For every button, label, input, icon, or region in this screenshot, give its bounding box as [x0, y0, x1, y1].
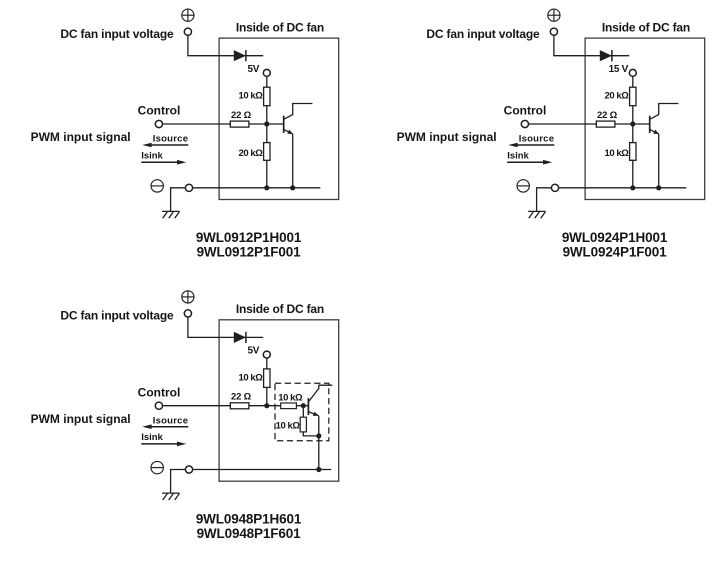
ground symbol (left)	[162, 211, 180, 218]
svg-text:5V: 5V	[248, 64, 260, 75]
node: internal supply terminal (bottom)	[263, 351, 270, 358]
resistor R1 10 kΩ (bottom)	[264, 369, 270, 388]
svg-text:PWM input signal: PWM input signal	[397, 130, 497, 144]
svg-text:5V: 5V	[248, 346, 260, 357]
wire: Control terminal through 22 ohm to junction (left)	[163, 123, 284, 125]
svg-text:10 kΩ: 10 kΩ	[239, 372, 264, 383]
arrow: Isource (points left) (right)	[508, 143, 554, 148]
wire: ground rail (bottom)	[193, 469, 332, 471]
wire: Control terminal through 22 ohm to junction (right)	[529, 123, 650, 125]
resistor 22 ohm (left)	[230, 121, 249, 127]
wire: emitter down to ground rail (bottom)	[318, 416, 320, 470]
svg-text:22 Ω: 22 Ω	[231, 392, 252, 403]
junction: base node dot (bottom)	[301, 403, 306, 408]
box: Inside of DC fan (left)	[219, 38, 339, 199]
junction: R2 bottom dot (right)	[630, 185, 635, 190]
resistor R2 20 kΩ (left)	[264, 143, 270, 161]
plus polarity symbol (bottom)	[182, 291, 194, 303]
wire: + terminal to diode (left)	[188, 35, 263, 55]
arrow: Isink (points right) (bottom)	[141, 442, 186, 447]
svg-text:Isource: Isource	[519, 134, 555, 145]
terminal: DC fan input (right)	[550, 28, 557, 35]
resistor R1 10 kΩ (left)	[264, 87, 270, 106]
terminal: ground side (left)	[185, 184, 192, 191]
svg-text:Inside of DC fan: Inside of DC fan	[236, 302, 324, 316]
transistor Q1 (NPN) base bar (bottom)	[307, 398, 309, 415]
resistor 22 ohm (right)	[596, 121, 615, 127]
terminal: DC fan input (left)	[184, 28, 191, 35]
wire: junction down to R2 (left)	[266, 124, 268, 143]
dashed enclosure box (bottom)	[275, 383, 329, 441]
wire: Control terminal through 22 ohm to junction (bottom)	[163, 405, 281, 407]
arrow: Isink (points right) (right)	[507, 160, 552, 165]
terminal: DC fan input (bottom)	[184, 310, 191, 317]
diode D1 (left)	[234, 50, 246, 61]
svg-text:Control: Control	[504, 104, 547, 118]
wire: base node down to R3 (bottom)	[302, 406, 304, 418]
wire: R3 bottom elbow to emitter (bottom)	[303, 432, 319, 436]
wire: R2 to ground rail (left)	[266, 160, 268, 188]
svg-text:Inside of DC fan: Inside of DC fan	[602, 20, 690, 34]
svg-text:Isink: Isink	[141, 151, 163, 162]
terminal: Control input (right)	[521, 120, 528, 127]
svg-text:22 Ω: 22 Ω	[597, 110, 618, 121]
wire: + terminal to diode (right)	[554, 35, 629, 55]
svg-text:9WL0912P1H001: 9WL0912P1H001	[196, 230, 302, 245]
svg-text:9WL0948P1F601: 9WL0948P1F601	[197, 526, 302, 541]
svg-text:Inside of DC fan: Inside of DC fan	[236, 20, 324, 34]
junction: control node dot (bottom)	[264, 403, 269, 408]
resistor R3 10 kohm vertical (bottom)	[300, 417, 306, 432]
svg-text:10 kΩ: 10 kΩ	[278, 393, 303, 404]
wire: R1 to control node (bottom)	[266, 387, 268, 405]
svg-text:9WL0948P1H601: 9WL0948P1H601	[196, 512, 302, 527]
terminal: Control input (left)	[155, 120, 162, 127]
svg-text:15 V: 15 V	[609, 64, 629, 75]
transistor Q1 (NPN) base bar (left)	[283, 116, 285, 133]
wire: R1 to control node (left)	[266, 106, 268, 124]
transistor Q1 emitter with arrow (bottom)	[308, 412, 318, 416]
minus polarity symbol (right)	[517, 180, 529, 192]
ground symbol (bottom)	[162, 493, 180, 500]
junction: emitter to ground rail dot (left)	[290, 185, 295, 190]
wire: supply node to R1 (right)	[632, 76, 634, 87]
transistor Q1 (NPN) base bar (right)	[649, 116, 651, 133]
wire: ground rail (right)	[559, 187, 687, 189]
diode D1 (right)	[600, 50, 612, 61]
node: internal supply terminal (left)	[263, 69, 270, 76]
transistor Q1 emitter with arrow (right)	[650, 129, 659, 134]
svg-text:22 Ω: 22 Ω	[231, 110, 252, 121]
wire: R2 to base junction (bottom)	[296, 405, 308, 407]
resistor R1 20 kΩ (right)	[630, 87, 636, 106]
junction: emitter node dot in dashed box (bottom)	[316, 433, 321, 438]
junction: R2 bottom dot (left)	[264, 185, 269, 190]
junction: control node dot (right)	[630, 121, 635, 126]
svg-text:PWM input signal: PWM input signal	[31, 412, 131, 426]
svg-text:DC fan input voltage: DC fan input voltage	[60, 27, 174, 41]
svg-text:9WL0924P1H001: 9WL0924P1H001	[562, 230, 668, 245]
transistor Q1 collector (left)	[284, 104, 313, 120]
ground symbol (right)	[528, 211, 546, 218]
svg-text:10 kΩ: 10 kΩ	[276, 421, 301, 432]
wire: rail elbow to ground symbol (bottom)	[171, 470, 186, 494]
transistor Q1 emitter with arrow (left)	[284, 129, 293, 134]
resistor R2 10 kΩ (right)	[630, 143, 636, 161]
svg-text:10 kΩ: 10 kΩ	[239, 91, 264, 102]
junction: control node dot (left)	[264, 121, 269, 126]
wire: ground rail (left)	[193, 187, 321, 189]
arrow: Isource (points left) (left)	[142, 143, 188, 148]
junction: emitter to ground rail dot (right)	[656, 185, 661, 190]
svg-text:20 kΩ: 20 kΩ	[605, 91, 630, 102]
svg-text:9WL0912P1F001: 9WL0912P1F001	[197, 244, 302, 259]
arrow: Isink (points right) (left)	[141, 160, 186, 165]
box: Inside of DC fan (bottom)	[219, 320, 339, 481]
transistor Q1 collector (bottom)	[308, 385, 332, 402]
svg-text:Control: Control	[138, 104, 181, 118]
svg-text:DC fan input voltage: DC fan input voltage	[426, 27, 540, 41]
arrow: Isource (points left) (bottom)	[142, 424, 188, 429]
terminal: ground side (bottom)	[185, 466, 192, 473]
junction: emitter node dot on rail (bottom)	[316, 467, 321, 472]
box: Inside of DC fan (right)	[585, 38, 705, 199]
minus polarity symbol (bottom)	[151, 461, 163, 473]
svg-text:DC fan input voltage: DC fan input voltage	[60, 309, 174, 323]
node: internal supply terminal (right)	[629, 69, 636, 76]
wire: rail elbow to ground symbol (right)	[537, 188, 552, 212]
resistor R2 10 kohm horizontal (bottom)	[281, 403, 297, 409]
svg-text:Isink: Isink	[507, 151, 529, 162]
svg-text:PWM input signal: PWM input signal	[31, 130, 131, 144]
plus polarity symbol (right)	[548, 9, 560, 21]
svg-text:Isource: Isource	[153, 415, 189, 426]
wire: emitter down to ground rail (right)	[658, 134, 660, 188]
transistor Q1 collector (right)	[650, 104, 679, 120]
resistor 22 ohm (bottom)	[230, 403, 249, 409]
svg-text:Isink: Isink	[141, 432, 163, 443]
svg-text:Isource: Isource	[153, 134, 189, 145]
wire: + terminal to diode (bottom)	[188, 317, 263, 337]
plus polarity symbol (left)	[182, 9, 194, 21]
wire: rail elbow to ground symbol (left)	[171, 188, 186, 212]
wire: supply node to R1 (left)	[266, 76, 268, 87]
wire: R1 to control node (right)	[632, 106, 634, 124]
svg-text:10 kΩ: 10 kΩ	[605, 148, 630, 159]
diode D1 (bottom)	[234, 332, 246, 343]
wire: supply node to R1 (bottom)	[266, 358, 268, 369]
svg-text:Control: Control	[138, 385, 181, 399]
wire: junction down to R2 (right)	[632, 124, 634, 143]
terminal: Control input (bottom)	[155, 402, 162, 409]
svg-text:9WL0924P1F001: 9WL0924P1F001	[563, 244, 668, 259]
terminal: ground side (right)	[551, 184, 558, 191]
wire: emitter down to ground rail (left)	[292, 134, 294, 188]
svg-text:20 kΩ: 20 kΩ	[239, 148, 264, 159]
minus polarity symbol (left)	[151, 180, 163, 192]
wire: R2 to ground rail (right)	[632, 160, 634, 188]
